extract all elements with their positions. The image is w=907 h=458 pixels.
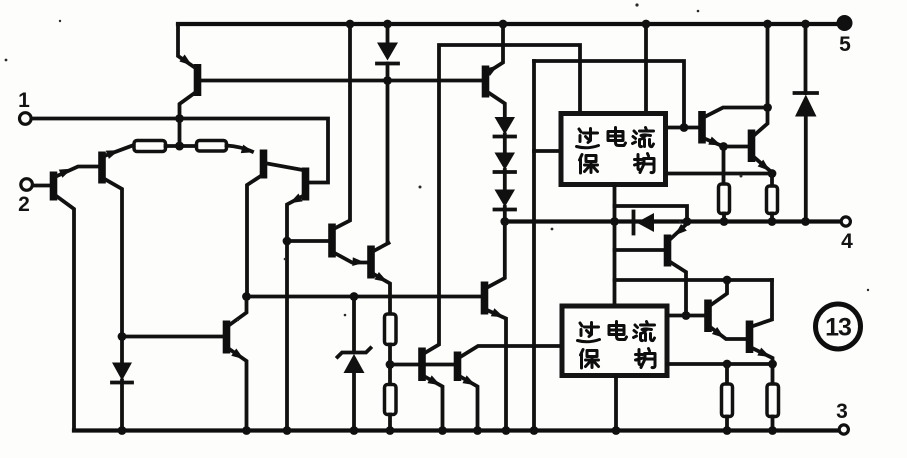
diode D7 (pin5 to pin4 clamp) [795, 20, 818, 226]
bottom rail to pin 3 [74, 428, 841, 432]
transistor Q12 (output upper-center) [485, 222, 507, 431]
transistor Q17 (lower output darlington 2) [750, 280, 777, 384]
node D1 junctions [346, 20, 392, 85]
pin 3 terminal [836, 400, 848, 434]
scan speckles [5, 3, 870, 321]
pin 5 terminal [837, 15, 853, 56]
resistor R6 [767, 186, 778, 226]
wire link B to upper driver base [534, 61, 699, 132]
diode D1 (top rail diode) [377, 24, 398, 243]
resistor R2 [197, 141, 256, 157]
transistor Q11 (upper driver center) [485, 24, 505, 117]
wire output rail to pin 4 [500, 217, 841, 226]
svg-text:3: 3 [836, 400, 848, 423]
svg-text:4: 4 [841, 230, 853, 253]
transistor Q15 (upper output darlington 2) [752, 20, 777, 178]
resistor R1 [134, 141, 197, 152]
block U1 overcurrent protection (upper) [561, 114, 666, 185]
resistor R5 [719, 184, 730, 226]
node center bias [175, 142, 184, 151]
transistor Q3 (input left inner) [102, 145, 134, 363]
transistor Q16 (lower output darlington 1) [667, 276, 746, 342]
wire pin2 to Q2 base [33, 184, 50, 188]
node pin1/Q1 collector junction [175, 114, 184, 150]
wire mid bias rail [242, 292, 481, 301]
wire box2 bottom to ground rail [614, 376, 618, 431]
transistor Q10 (bias driver right) [458, 346, 563, 431]
wire protection box1 bottom feed [610, 185, 772, 306]
diode D5 (chain 3) [495, 190, 516, 222]
diode D2 (left mirror diode) [112, 363, 132, 431]
transistor Q1 (top-left PNP) [178, 24, 198, 146]
wire bias feed vertical x534 [534, 61, 561, 431]
pin 1 terminal [18, 89, 31, 124]
svg-text:2: 2 [18, 193, 30, 216]
diode D6 (output clamp on pin4 rail) [634, 212, 655, 234]
node Q5 collector taps [283, 237, 292, 246]
pin 4 terminal [841, 217, 853, 253]
badge circled 13 [816, 304, 861, 349]
node Q8 base junction [118, 332, 127, 341]
resistor R4 [385, 385, 397, 431]
svg-text:1: 1 [18, 89, 30, 112]
transistor Q14 (upper output darlington 1) [702, 108, 768, 185]
top supply rail to pin 5 [178, 22, 841, 26]
transistor Q13 (PNP sense) [668, 222, 691, 320]
resistor R7 [722, 364, 733, 431]
transistor Q2 (input left outer) [54, 165, 99, 431]
transistor Q8 (bottom-left mirror) [122, 297, 247, 431]
node R3/R4 divider [386, 360, 454, 369]
zener diode Z1 [338, 297, 371, 431]
wire Q1 base line [201, 79, 482, 83]
node bottom rail junctions [118, 426, 777, 435]
transistor Q4 (input right inner) [247, 150, 303, 297]
wire pin1 to node of Qd base [32, 119, 329, 183]
transistor Q5 (input right outer) [287, 168, 306, 431]
pin 2 terminal [18, 179, 32, 216]
transistor Q7 (VAS darlington second) [371, 243, 390, 314]
transistor Q6 (VAS darlington first) [287, 24, 368, 267]
resistor R8 [767, 384, 779, 431]
resistor R3 [385, 314, 397, 385]
diode D3 (chain 1) [495, 117, 516, 153]
diode D4 (chain 2) [495, 153, 516, 190]
wire box1 to upper emitter resistors [666, 174, 772, 187]
svg-text:13: 13 [825, 314, 851, 342]
wire box2 to lower emitter resistors [667, 360, 773, 369]
block U2 overcurrent protection (lower) [562, 306, 667, 376]
node Q11 emitter on rail [499, 20, 508, 29]
transistor Q9 (bias driver left) [422, 45, 580, 431]
svg-text:5: 5 [839, 33, 851, 56]
wire top rail to protection box 1 [642, 20, 651, 113]
